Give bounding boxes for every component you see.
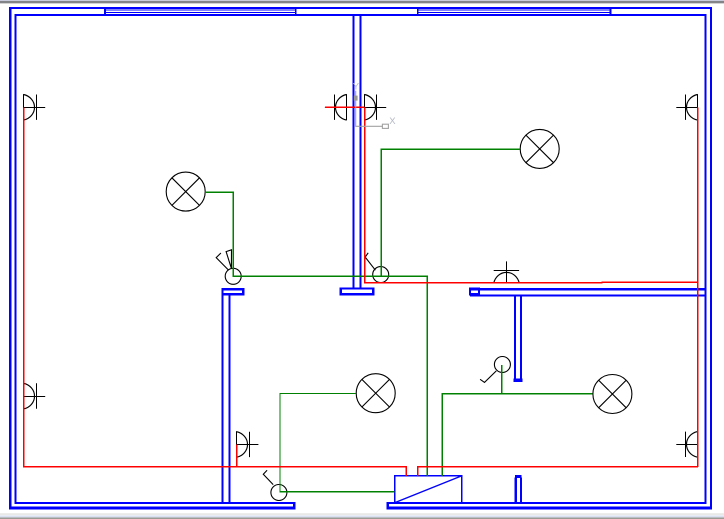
wall light RS1 (right wall top) (676, 94, 697, 120)
door jamb at bottom opening right (387, 502, 389, 509)
red wire: left wall run down into panel (24, 107, 407, 475)
svg-text:Y: Y (353, 82, 360, 93)
green wire: panel up and across to lamp L4 (442, 394, 592, 476)
interior wall B line 1 (221, 295, 223, 502)
wall light LS1 (left wall top) (24, 94, 46, 120)
switch S3 (480, 357, 510, 383)
green wire: lamp L2 to switch S2 (381, 149, 520, 276)
lamp L1 (166, 172, 205, 211)
outer wall top (9, 7, 712, 9)
wall light TW (on wall C, facing up) (494, 261, 520, 283)
wall light BM (on wall B, facing right) (237, 431, 259, 457)
inner wall line top (15, 14, 707, 16)
distribution panel (395, 476, 462, 503)
red wire: panel to right wall bottom (418, 467, 698, 476)
green wire: lamp L3 to switch S4 to panel (280, 394, 395, 492)
interior wall D line 1 (514, 297, 516, 379)
window W2 pane lines (417, 10, 611, 11)
lamp L2 (520, 129, 559, 168)
inner wall line left (15, 14, 17, 504)
outer wall bottom right piece (387, 507, 712, 510)
switch S1 (216, 250, 241, 284)
lamp L4 (593, 375, 632, 414)
interior wall E line 1 (515, 478, 517, 503)
interior wall C line 2 (470, 294, 706, 296)
interior wall C line 1 (470, 288, 706, 290)
interior wall A line 2 (359, 16, 361, 287)
green wire: switch S3 drop (501, 365, 503, 394)
inner wall line right (704, 14, 706, 504)
lamp L3 (356, 374, 395, 413)
interior wall E line 2 (520, 478, 522, 503)
wall light LS2 (left wall bottom) (24, 383, 46, 409)
door jamb at bottom opening left (293, 502, 295, 509)
green wire: lamp L1 to switch S1 to panel (205, 192, 427, 475)
red wire: right wall vertical run (697, 107, 699, 467)
window W1 left jamb (104, 7, 106, 16)
window W2 left jamb (417, 7, 419, 16)
toolbar bottom edge (gray bar at top) (0, 0, 724, 4)
outer wall left (9, 7, 12, 510)
inner wall line bottom right piece (387, 502, 707, 504)
wall light PL (middle wall, facing left) (325, 94, 347, 120)
outer wall right (710, 7, 712, 510)
red wire: sconce pair link at top middle (325, 106, 365, 108)
UCS icon Y arrow marker (354, 96, 358, 101)
svg-text:X: X (389, 116, 396, 127)
wall B top cap (223, 289, 244, 294)
status bar (bottom gray strip) (0, 513, 724, 519)
window W1 pane lines (104, 10, 296, 11)
inner wall line bottom left piece (15, 502, 296, 504)
interior wall D line 2 (520, 297, 522, 379)
wall E top cap (516, 475, 521, 478)
wall light RS2 (right wall bottom) (676, 432, 697, 458)
UCS icon axes (356, 91, 389, 129)
wall D bottom cap (515, 380, 522, 381)
interior wall B line 2 (228, 295, 230, 502)
switch S2 (365, 253, 389, 283)
red wire: drop from sconce BM (236, 444, 238, 467)
window W1 right jamb (295, 7, 297, 16)
switch S4 (263, 470, 287, 500)
red wire: middle drop and run to right wall (365, 107, 698, 283)
wall light PR (middle wall, facing right) (365, 94, 387, 120)
wall C left end cap (470, 288, 479, 294)
outer wall bottom left piece (9, 507, 295, 510)
window W2 right jamb (610, 7, 612, 16)
wall A foot cap (341, 288, 374, 294)
interior wall A line 1 (352, 16, 354, 287)
